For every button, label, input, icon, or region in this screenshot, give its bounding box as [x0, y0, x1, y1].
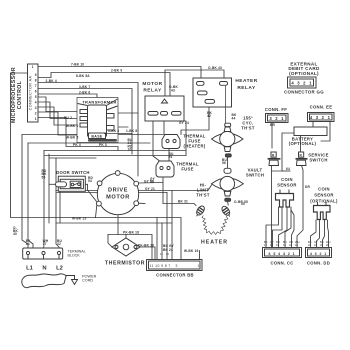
svg-text:7: 7 — [35, 84, 37, 88]
svg-text:GY 24: GY 24 — [179, 121, 189, 125]
svg-text:CONN. CC: CONN. CC — [270, 261, 293, 266]
svg-text:8-BK 5A: 8-BK 5A — [76, 74, 90, 78]
svg-text:11 10 9 8 7: 11 10 9 8 7 — [150, 264, 171, 268]
svg-text:2-BK 4: 2-BK 4 — [46, 79, 57, 83]
svg-text:PK-BK 18: PK-BK 18 — [123, 231, 139, 235]
svg-text:7-BK 10: 7-BK 10 — [71, 63, 84, 67]
svg-text:PK 3: PK 3 — [99, 143, 107, 147]
svg-text:TRANSFORMER: TRANSFORMER — [82, 100, 116, 105]
svg-text:MOTOR: MOTOR — [106, 195, 130, 201]
svg-text:(OPTIONAL): (OPTIONAL) — [310, 199, 338, 204]
svg-text:CONNECTOR BB: CONNECTOR BB — [156, 273, 194, 278]
svg-text:W-BK 15: W-BK 15 — [72, 217, 86, 221]
svg-text:4: 4 — [35, 101, 37, 105]
svg-text:17: 17 — [43, 242, 47, 246]
svg-text:RELAY: RELAY — [143, 88, 162, 94]
svg-text:2: 2 — [35, 112, 37, 116]
svg-text:3: 3 — [35, 106, 37, 110]
svg-text:4 3 2 1: 4 3 2 1 — [310, 115, 331, 120]
svg-text:W-BK 1: W-BK 1 — [66, 124, 78, 128]
svg-text:5: 5 — [35, 95, 37, 99]
svg-text:40: 40 — [13, 232, 17, 236]
svg-text:BK 31: BK 31 — [178, 200, 188, 204]
svg-text:CONTROL: CONTROL — [17, 80, 23, 109]
svg-text:CONNECTOR GG: CONNECTOR GG — [284, 90, 324, 95]
svg-text:CONN. FF: CONN. FF — [265, 107, 287, 112]
svg-text:W-BK 16: W-BK 16 — [184, 249, 198, 253]
svg-text:64: 64 — [286, 167, 290, 171]
svg-text:43: 43 — [26, 242, 30, 246]
svg-text:TH'ST: TH'ST — [241, 126, 255, 131]
svg-text:SWITCH: SWITCH — [246, 173, 264, 178]
svg-text:32: 32 — [57, 242, 61, 246]
svg-text:FUSE: FUSE — [181, 167, 193, 172]
svg-text:3-BK 6: 3-BK 6 — [108, 129, 119, 133]
svg-text:CONN. EE: CONN. EE — [310, 105, 333, 110]
svg-text:42: 42 — [207, 114, 211, 118]
svg-text:RELAY: RELAY — [237, 85, 256, 91]
svg-text:56: 56 — [222, 161, 226, 165]
svg-text:CORD: CORD — [82, 279, 93, 283]
svg-text:O-BK 43: O-BK 43 — [208, 66, 222, 70]
svg-text:W-BK 5: W-BK 5 — [66, 136, 78, 140]
svg-text:CONNECTOR AA: CONNECTOR AA — [29, 75, 33, 110]
svg-text:(HEATER): (HEATER) — [183, 144, 205, 149]
svg-text:4 3 2 1: 4 3 2 1 — [291, 81, 312, 86]
svg-text:2-BK 6: 2-BK 6 — [79, 91, 90, 95]
svg-text:BK: BK — [163, 248, 169, 252]
svg-text:8: 8 — [35, 79, 37, 83]
svg-text:L1: L1 — [26, 266, 34, 272]
svg-text:SENSOR: SENSOR — [277, 183, 296, 188]
svg-text:TH'ST: TH'ST — [196, 193, 210, 198]
svg-text:1: 1 — [32, 65, 34, 69]
svg-text:CONN. DD: CONN. DD — [307, 261, 330, 266]
svg-text:PK 4: PK 4 — [73, 143, 81, 147]
svg-text:MOTOR: MOTOR — [142, 81, 162, 87]
svg-text:BLOCK: BLOCK — [68, 254, 81, 258]
svg-text:55: 55 — [42, 175, 46, 179]
svg-text:43: 43 — [171, 89, 175, 93]
svg-text:(OPTIONAL): (OPTIONAL) — [289, 71, 319, 76]
svg-text:9: 9 — [35, 73, 37, 77]
svg-text:SWITCH: SWITCH — [309, 158, 327, 163]
svg-text:THERMISTOR: THERMISTOR — [105, 261, 145, 267]
svg-text:DOOR SWITCH: DOOR SWITCH — [56, 170, 90, 175]
svg-text:10: 10 — [128, 148, 132, 152]
svg-text:44: 44 — [232, 117, 236, 121]
svg-text:PK-BK 19: PK-BK 19 — [138, 244, 154, 248]
svg-text:55: 55 — [241, 202, 245, 206]
svg-text:(OPTIONAL): (OPTIONAL) — [289, 141, 317, 146]
svg-text:HEATER: HEATER — [235, 78, 257, 84]
svg-text:6: 6 — [35, 90, 37, 94]
svg-text:DR: DR — [305, 185, 311, 189]
svg-text:3-BK 7: 3-BK 7 — [79, 85, 90, 89]
svg-text:GY 21: GY 21 — [145, 187, 155, 191]
svg-text:COIN: COIN — [318, 187, 330, 192]
svg-text:L2: L2 — [56, 266, 63, 272]
svg-text:1: 1 — [35, 117, 37, 121]
svg-text:6 5 4 3 2 1: 6 5 4 3 2 1 — [269, 252, 296, 256]
svg-text:55: 55 — [150, 180, 154, 184]
svg-text:3: 3 — [176, 264, 178, 268]
svg-text:N: N — [42, 266, 46, 272]
svg-text:BR: BR — [270, 123, 276, 127]
svg-text:DRIVE: DRIVE — [108, 188, 128, 194]
svg-text:53: 53 — [88, 179, 92, 183]
svg-text:SENSOR: SENSOR — [314, 193, 333, 198]
svg-text:4 3 2 1: 4 3 2 1 — [310, 252, 327, 256]
svg-text:BASE: BASE — [91, 135, 102, 139]
svg-text:1-BK 8: 1-BK 8 — [126, 129, 137, 133]
svg-text:COIN: COIN — [281, 177, 293, 182]
svg-text:24: 24 — [169, 248, 173, 252]
svg-text:3 2 1: 3 2 1 — [269, 116, 284, 121]
svg-text:HEATER: HEATER — [201, 240, 228, 246]
svg-text:2-BK 9: 2-BK 9 — [111, 69, 122, 73]
svg-text:1: 1 — [198, 264, 200, 268]
svg-text:BU 2: BU 2 — [64, 116, 72, 120]
svg-text:26: 26 — [169, 155, 173, 159]
